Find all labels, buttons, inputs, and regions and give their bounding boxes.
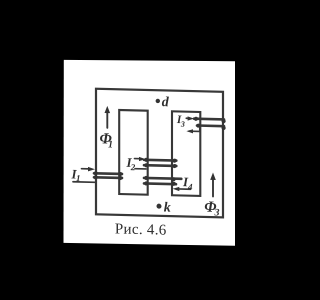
wire lead bottom of W2 xyxy=(135,168,146,170)
wire lead bottom of W1 xyxy=(73,181,95,184)
wire lead bottom of W3 with small left arrow xyxy=(189,127,200,131)
wire lead bottom of W4 with current arrow I4 xyxy=(178,188,191,190)
svg-text:1: 1 xyxy=(108,139,113,150)
svg-text:2: 2 xyxy=(130,162,136,172)
svg-text:d: d xyxy=(162,95,170,110)
node d (dot) xyxy=(156,99,160,104)
svg-text:Рис. 4.6: Рис. 4.6 xyxy=(115,221,167,238)
svg-text:3: 3 xyxy=(180,120,185,129)
winding W3 on right leg xyxy=(194,117,224,120)
winding W1 on left leg xyxy=(94,172,122,175)
svg-text:4: 4 xyxy=(187,182,193,192)
flux arrow Phi1 (left leg, up) xyxy=(106,113,108,128)
svg-text:1: 1 xyxy=(76,173,81,183)
right window of core xyxy=(172,111,200,196)
svg-text:3: 3 xyxy=(214,207,220,218)
wire lead top of W2 with current arrow I2 xyxy=(135,158,140,160)
winding W2 on middle leg (upper) xyxy=(144,158,176,161)
wire lead top of W3 with current arrow I3 xyxy=(186,117,189,119)
wire lead top of W1 with current arrow I1 xyxy=(82,168,90,170)
flux arrow Phi3 (right leg, up) xyxy=(212,180,214,197)
label I1 xyxy=(71,93,220,219)
left window of core xyxy=(119,110,148,195)
winding W4 on middle leg (lower) xyxy=(144,177,181,181)
node k (dot) xyxy=(157,204,162,209)
core outer outline xyxy=(96,89,223,218)
svg-text:k: k xyxy=(164,200,171,215)
